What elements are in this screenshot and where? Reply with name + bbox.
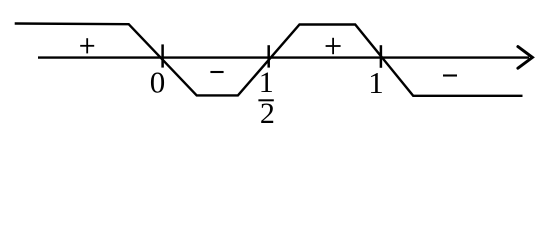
svg-text:1: 1 xyxy=(368,65,384,100)
svg-text:0: 0 xyxy=(150,64,166,99)
minus sign region 2 xyxy=(210,71,223,73)
svg-text:1: 1 xyxy=(259,66,274,99)
tick 1 xyxy=(380,45,383,68)
plus sign region 1 xyxy=(80,38,94,53)
tick 1/2 xyxy=(267,45,270,67)
tick 0 xyxy=(161,44,164,67)
svg-text:2: 2 xyxy=(260,97,275,130)
sign curve (trapezoidal wave) xyxy=(15,24,523,96)
arrowhead xyxy=(518,47,533,69)
fraction bar xyxy=(258,99,273,101)
plus sign region 3 xyxy=(326,38,341,54)
axis xyxy=(38,56,529,58)
minus sign region 4 xyxy=(443,74,457,76)
